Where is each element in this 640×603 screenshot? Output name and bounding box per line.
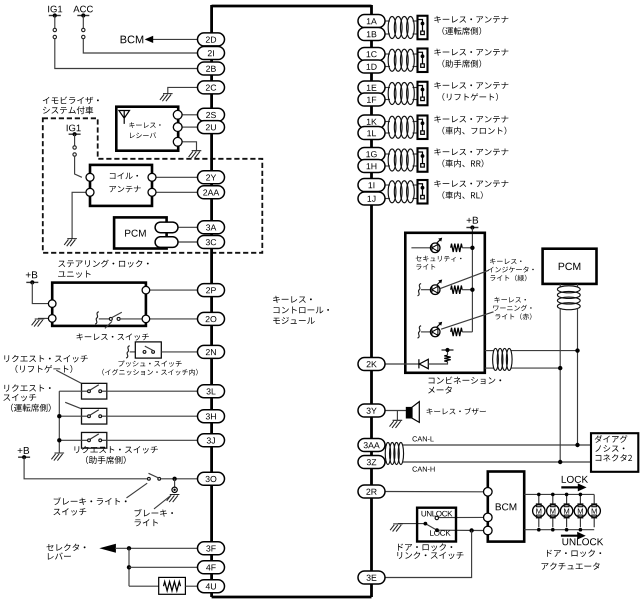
BCM box (right): [488, 472, 524, 542]
wire receiver to pin 2S: [182, 114, 197, 116]
wire request switch driver to pin 3H: [107, 415, 198, 417]
receiver antenna symbol: [119, 111, 130, 124]
label: keyless buzzer: [427, 408, 486, 415]
keyless antenna ANT5 box: [418, 148, 428, 172]
pin 1B: [358, 28, 385, 41]
keyless antenna ANT5 wires: [385, 153, 390, 155]
steering lock terminal right 1: [142, 286, 150, 294]
wire steering lock to pin 2P: [150, 289, 198, 291]
label: immobilizer system equipped car: [43, 97, 99, 105]
coil antenna left terminal 2: [86, 188, 94, 196]
label: request switch (passenger side): [74, 446, 157, 454]
wire to resistor R1: [129, 585, 159, 587]
pin 3C: [198, 236, 225, 249]
request switch SW5 (passenger side): [82, 432, 107, 448]
pin 1C: [358, 48, 385, 61]
power feed ACC (top): [73, 6, 93, 13]
pin 3L: [198, 385, 225, 398]
pin 2K: [358, 358, 385, 371]
keyless antenna ANT4 box: [418, 116, 428, 140]
label: push switch (inside ignition switch): [118, 360, 181, 367]
link switch contacts: [425, 524, 437, 531]
brake light lamp: [172, 487, 177, 492]
pin 4U: [198, 580, 225, 593]
wire receiver to pin 2U: [182, 126, 197, 128]
fuse connector on immobilizer IG1 wire: [74, 134, 76, 146]
coil antenna box: [90, 165, 152, 206]
fuse connector on ACC wire: [82, 16, 84, 29]
receiver terminal 1: [173, 110, 182, 119]
label: request switch (driver side): [4, 384, 50, 391]
label: keyless antenna ANT5: [434, 148, 508, 155]
pin 2I: [198, 47, 225, 60]
power feed +B (steering lock): [26, 271, 37, 278]
pin 1E: [358, 81, 385, 94]
keyless switch SW1 inside steering lock: [95, 312, 99, 324]
coil antenna right terminal 1: [148, 173, 156, 181]
label: keyless antenna ANT2: [434, 49, 508, 56]
door lock actuator bus wires: [524, 493, 594, 495]
label: selector lever: [46, 544, 85, 551]
ground (steering lock): [32, 319, 45, 327]
CAN-H wire to diagnosis connector: [403, 461, 591, 463]
keyless antenna ANT2 box: [418, 49, 428, 73]
keyless antenna ANT6 wires: [385, 184, 390, 186]
wire brake switch to pin 3O: [161, 478, 198, 480]
CAN coil at pins 3AA/3Z: [385, 444, 387, 446]
resistor R1 (in box): [159, 577, 186, 594]
pin 2S: [198, 108, 225, 121]
label: door lock actuator: [547, 549, 601, 557]
keyless antenna ANT2 wires: [385, 53, 390, 55]
pin 3J: [198, 434, 225, 447]
pin 2Y: [198, 171, 225, 184]
label UNLOCK with arrow: [561, 535, 578, 537]
receiver terminal 3: [173, 137, 182, 146]
pin 2AA: [198, 186, 225, 199]
ground (receiver): [189, 151, 202, 159]
wire coil antenna to pin 2Y: [156, 176, 198, 178]
wire to brake light: [174, 479, 176, 487]
label: door lock link switch: [398, 543, 452, 551]
diagnosis connector 2 box: [591, 433, 638, 472]
wire coil antenna to pin 2AA: [156, 191, 198, 193]
keyless control module outline: [212, 5, 372, 597]
pin 2C: [198, 81, 225, 94]
keyless antenna ANT1 coil: [388, 17, 396, 39]
request switch SW4 (driver side): [82, 408, 107, 424]
wire junction to pin 4F: [128, 548, 130, 586]
label: brake light switch: [54, 497, 127, 505]
wire coil antenna to ground: [72, 192, 86, 238]
steering lock unit box: [52, 283, 146, 326]
pin 3A: [198, 221, 225, 234]
keyless receiver box U-RX: [116, 107, 178, 151]
CAN-L wire to diagnosis connector: [403, 444, 591, 446]
pin 3Z: [358, 456, 385, 469]
power feed IG1 (immobilizer): [67, 125, 81, 132]
wire IG1 to coil antenna: [75, 156, 82, 177]
coil antenna left terminal 1: [86, 173, 94, 181]
PCM box (immobilizer): [114, 217, 167, 248]
meter CAN wires to PCM bus: [485, 350, 494, 352]
ground (brake light): [167, 495, 180, 503]
pin 3Y: [358, 404, 385, 417]
pin 2B: [198, 62, 225, 75]
power feed +B (meter): [467, 217, 478, 224]
pin 1H: [358, 160, 385, 173]
label: keyless switch: [77, 333, 149, 340]
pin 1L: [358, 127, 385, 140]
label: security light: [416, 256, 462, 262]
keyless antenna ANT3 coil: [388, 83, 396, 105]
BCM terminal 1: [484, 488, 493, 497]
immobilizer-equipped-car dashed boundary: [43, 118, 262, 253]
PCM CAN-H wire down: [559, 309, 561, 463]
keyless antenna ANT4 coil: [388, 116, 396, 138]
keyless buzzer BZ1: [385, 410, 406, 412]
keyless antenna ANT6 box: [418, 180, 428, 204]
wire +B to brake light switch: [24, 457, 147, 479]
request switch common ground wire: [58, 391, 60, 453]
label: request switch (liftgate): [4, 355, 87, 363]
combination meter box: [405, 233, 485, 373]
pin 1J: [358, 192, 385, 205]
+B feed wire inside meter: [471, 228, 473, 332]
wire steering lock to ground: [38, 317, 49, 319]
keyless antenna ANT4 wires: [385, 121, 390, 123]
pin 2D: [198, 33, 225, 46]
label BCM with arrow from pin 2D: [121, 36, 144, 44]
pin 2O: [198, 312, 225, 325]
label: steering lock unit: [58, 260, 148, 268]
keyless antenna ANT6 coil: [388, 181, 396, 203]
wire request switch passenger to common: [59, 439, 81, 441]
wire request switch passenger to pin 3J: [107, 439, 198, 441]
keyless indicator light LED2 circuit: [418, 284, 422, 296]
keyless antenna ANT1 box: [418, 16, 428, 40]
ground (door lock link switch): [398, 523, 425, 525]
wire steering lock to pin 2O: [150, 318, 198, 320]
pin 3AA: [358, 439, 385, 452]
PCM connector to pin 3A: [170, 226, 198, 228]
wire door lock link switch LOCK to BCM: [437, 529, 484, 531]
keyless antenna ANT5 coil: [388, 149, 396, 171]
label: coil antenna: [110, 172, 138, 179]
wire door lock link switch UNLOCK to BCM: [438, 516, 483, 518]
steering lock terminal left 1: [48, 300, 56, 308]
wire push switch to pin 2N: [161, 351, 197, 353]
pin 3O: [198, 472, 225, 485]
BCM terminal 2: [484, 513, 493, 522]
label: keyless antenna ANT6: [434, 180, 508, 187]
steering lock terminal right 2: [142, 315, 150, 323]
wire request switch liftgate to common: [59, 390, 81, 392]
pin 1G: [358, 148, 385, 161]
label: combination meter: [429, 377, 502, 385]
pin 2R: [358, 485, 385, 498]
wire request switch driver to common: [59, 415, 81, 417]
BCM terminal 3: [484, 526, 493, 535]
keyless antenna ANT3 wires: [385, 87, 390, 89]
label: diagnosis connector 2: [595, 435, 628, 443]
label LOCK with arrow: [562, 476, 588, 483]
wire keyless switch to right terminal: [120, 318, 142, 320]
arrow to selector lever from pin 3F: [99, 544, 116, 553]
pin 2U: [198, 121, 225, 134]
fuse connector on IG1 wire: [54, 16, 56, 29]
wire +B to steering lock unit: [32, 282, 48, 303]
pin 1K: [358, 115, 385, 128]
keyless warning light LED3 circuit: [418, 326, 422, 338]
pin 3E: [358, 571, 385, 584]
keyless antenna ANT1 wires: [385, 20, 390, 22]
receiver terminal link wire: [177, 115, 179, 142]
label: keyless indicator light (green): [490, 258, 521, 264]
brake light switch SW6: [148, 477, 151, 480]
door lock link switch box: [417, 508, 456, 542]
coil antenna right terminal 2: [148, 188, 156, 196]
pin 1D: [358, 60, 385, 73]
receiver terminal 2: [173, 123, 182, 132]
PCM box (right): [543, 249, 597, 284]
pin 2P: [198, 284, 225, 297]
PCM harness coil: [559, 284, 561, 287]
PCM CAN-L wire down: [577, 309, 579, 446]
wire receiver to ground: [182, 142, 196, 151]
label: keyless antenna ANT3: [434, 82, 508, 89]
pin 3F: [198, 542, 225, 555]
wire pin 3E to LOCK line: [385, 531, 472, 578]
pin 1A: [358, 15, 385, 28]
pin 4F: [198, 561, 225, 574]
door lock actuator motors M1-M5: [533, 495, 545, 528]
request switch SW3 (liftgate): [82, 383, 107, 399]
ground (pin 2C): [160, 94, 173, 102]
pin 3H: [198, 410, 225, 423]
PCM connector to pin 3C: [170, 241, 198, 243]
keyless antenna ANT2 coil: [388, 49, 396, 71]
security light LED1 circuit: [411, 247, 430, 249]
label: keyless receiver: [129, 122, 160, 128]
label: keyless antenna ANT4: [434, 116, 508, 123]
wire ACC to pin 2I: [83, 39, 197, 53]
steering lock terminal left 2: [48, 315, 56, 323]
diode D1 and resistor R2 at meter input: [385, 363, 419, 365]
keyless antenna ANT3 box: [418, 82, 428, 106]
wire pin 2R to BCM: [385, 491, 484, 493]
pin 2N: [198, 345, 225, 358]
pin 1I: [358, 179, 385, 192]
push switch SW2 (in ignition switch): [126, 346, 130, 358]
label: keyless warning light (red): [494, 297, 525, 303]
wire pin 2C to ground: [168, 87, 198, 93]
label: keyless control module: [273, 296, 312, 303]
label: keyless antenna ANT1: [434, 16, 508, 23]
wire request switch liftgate to pin 3L: [107, 390, 198, 392]
power feed IG1 (top): [48, 6, 62, 13]
wire IG1 to pin 2B: [55, 39, 198, 69]
label: brake light: [135, 509, 173, 517]
power feed +B (brake): [18, 447, 29, 454]
ground (coil antenna): [64, 239, 77, 247]
pin 1F: [358, 93, 385, 106]
ground (request switches): [51, 453, 64, 461]
wire resistor R1 to pin 4U: [185, 585, 197, 587]
